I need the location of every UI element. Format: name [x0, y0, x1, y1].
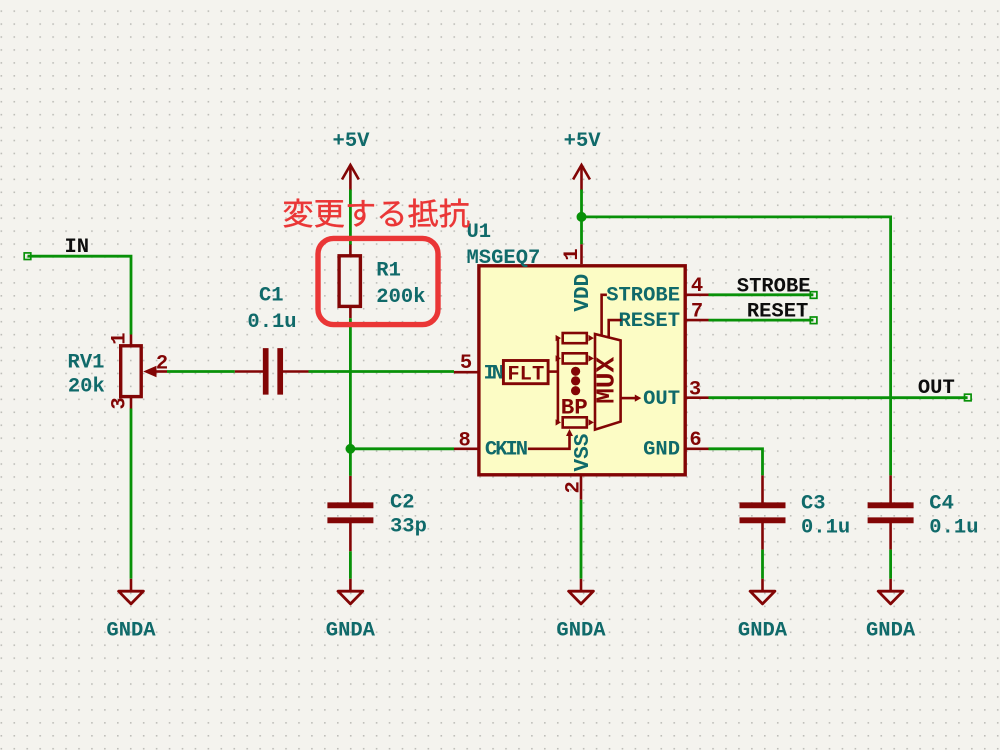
pin 2 VSS: [580, 477, 583, 500]
svg-text:+5V: +5V: [333, 130, 371, 153]
wire +5V to R1: [349, 190, 352, 246]
filter dots: [571, 367, 580, 376]
wire RV1 pin3 to ground: [130, 409, 133, 579]
filter cell 3 BP: [556, 419, 561, 425]
wire C1 to pin5: [309, 370, 455, 373]
svg-text:RV1: RV1: [68, 352, 105, 375]
svg-text:MUX: MUX: [591, 357, 621, 404]
svg-text:GNDA: GNDA: [866, 620, 916, 643]
junction (R1/C2/CKIN): [346, 444, 356, 454]
wire IN net: [28, 256, 132, 334]
svg-text:20k: 20k: [68, 375, 105, 398]
filter cell 2: [556, 355, 561, 361]
MUX trapezoid: [595, 334, 621, 430]
pin 3 OUT: [686, 396, 709, 399]
svg-text:OUT: OUT: [918, 377, 955, 400]
annotation text 変更する抵抗: [284, 199, 470, 228]
capacitor C3: [761, 475, 764, 503]
svg-text:GNDA: GNDA: [556, 620, 606, 643]
op-amp U1 MSGEQ7 body: [479, 266, 685, 475]
wire wiper row: [167, 370, 235, 373]
svg-text:GNDA: GNDA: [738, 620, 788, 643]
OUT arrow: [621, 397, 636, 400]
svg-text:33p: 33p: [390, 515, 427, 538]
junction (+5V rail): [577, 212, 587, 222]
wire C2 to ground: [349, 551, 352, 579]
power +5V (U1): [580, 166, 583, 191]
filter cell 1: [556, 335, 561, 341]
svg-text:IN: IN: [484, 362, 503, 385]
RESET bracket: [609, 320, 622, 337]
svg-text:RESET: RESET: [747, 301, 809, 324]
power +5V (R1): [349, 166, 352, 191]
ground GNDA (x=762.5): [761, 579, 764, 591]
svg-text:CKIN: CKIN: [485, 439, 527, 462]
svg-text:4: 4: [691, 275, 703, 298]
svg-text:VSS: VSS: [572, 434, 595, 472]
svg-text:GNDA: GNDA: [326, 620, 376, 643]
ground GNDA (x=890.6): [889, 579, 892, 591]
node IN label anchor: [24, 253, 31, 260]
svg-text:U1: U1: [467, 221, 492, 244]
STROBE bracket: [602, 295, 607, 336]
wire +5V to pin1 and top rail: [580, 190, 583, 245]
svg-text:FLT: FLT: [507, 363, 544, 386]
resistor R1: [349, 245, 352, 257]
svg-text:GND: GND: [643, 439, 680, 462]
svg-text:C4: C4: [929, 492, 954, 515]
svg-text:2: 2: [156, 352, 168, 375]
svg-text:VDD: VDD: [572, 274, 595, 312]
svg-text:C2: C2: [390, 492, 415, 515]
svg-text:8: 8: [459, 429, 471, 452]
ground GNDA (x=581): [580, 579, 583, 591]
svg-text:C3: C3: [801, 492, 826, 515]
pin 6 GND: [686, 447, 709, 450]
svg-text:3: 3: [689, 378, 701, 401]
wire junction to pin8: [350, 447, 454, 450]
svg-text:7: 7: [691, 300, 703, 323]
capacitor C4: [889, 475, 892, 503]
svg-text:5: 5: [460, 352, 472, 375]
pin 8 CKIN: [454, 447, 479, 450]
pin 7 RESET: [686, 319, 709, 322]
svg-text:2: 2: [563, 481, 586, 493]
svg-text:RESET: RESET: [618, 310, 680, 333]
svg-text:STROBE: STROBE: [737, 275, 811, 298]
svg-text:200k: 200k: [376, 286, 425, 309]
svg-text:3: 3: [109, 397, 132, 409]
pin 1 VDD: [580, 244, 583, 264]
potentiometer RV1: [130, 335, 133, 346]
pin 4 STROBE: [686, 293, 709, 296]
svg-text:OUT: OUT: [643, 388, 680, 411]
svg-text:GNDA: GNDA: [106, 620, 156, 643]
svg-text:R1: R1: [376, 260, 401, 283]
CKIN clock line: [528, 434, 570, 449]
svg-text:IN: IN: [64, 236, 89, 259]
svg-text:0.1u: 0.1u: [247, 311, 296, 334]
svg-text:6: 6: [689, 429, 701, 452]
svg-text:STROBE: STROBE: [606, 284, 680, 307]
svg-text:1: 1: [561, 248, 584, 260]
svg-text:1: 1: [109, 332, 132, 344]
svg-text:MSGEQ7: MSGEQ7: [467, 247, 541, 270]
filter bus: [557, 338, 560, 422]
svg-text:0.1u: 0.1u: [929, 516, 978, 539]
capacitor C1: [235, 370, 263, 373]
annotation highlight ring: [318, 238, 438, 324]
svg-text:+5V: +5V: [564, 130, 602, 153]
FLT block: [503, 361, 548, 384]
capacitor C2: [349, 476, 352, 503]
ground GNDA (x=350.4): [349, 579, 352, 591]
pin 5 IN: [454, 371, 479, 374]
svg-text:C1: C1: [259, 285, 284, 308]
wire R1 to CKIN/C2: [349, 318, 352, 476]
ground GNDA (x=131): [130, 579, 133, 591]
svg-text:0.1u: 0.1u: [801, 516, 850, 539]
